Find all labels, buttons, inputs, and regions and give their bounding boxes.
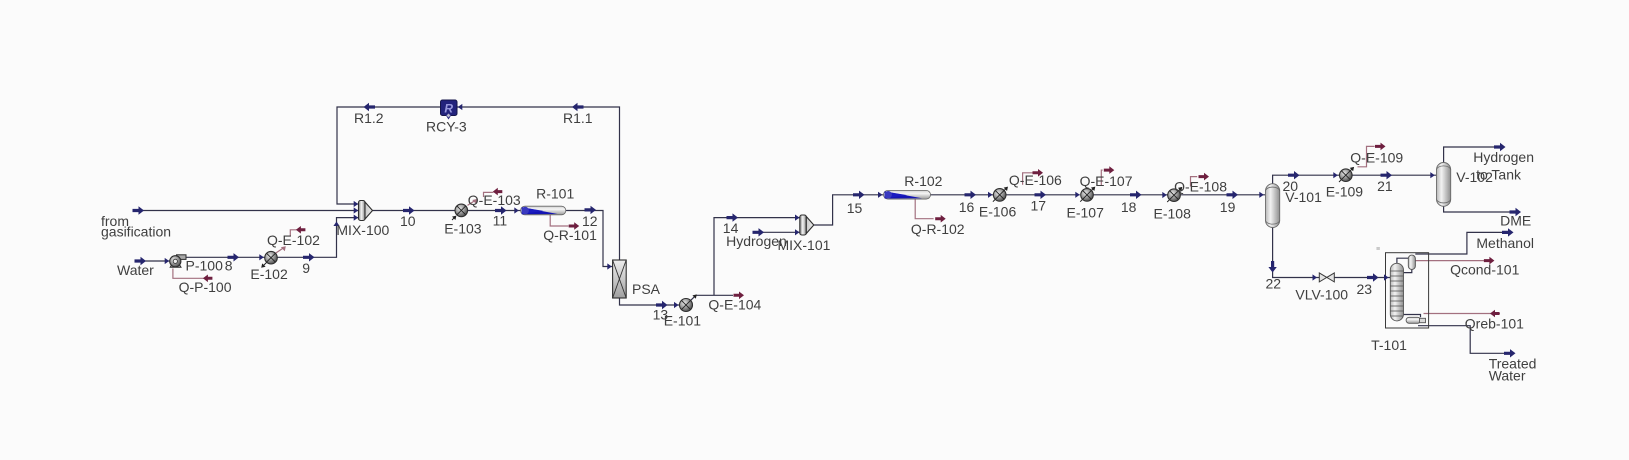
svg-text:Q-E-103: Q-E-103 (468, 192, 521, 208)
svg-text:Q-P-100: Q-P-100 (179, 279, 232, 295)
svg-text:E-108: E-108 (1154, 206, 1192, 222)
svg-text:Methanol: Methanol (1476, 235, 1534, 251)
svg-text:E-101: E-101 (664, 312, 702, 328)
svg-text:Qcond-101: Qcond-101 (1450, 261, 1519, 277)
svg-text:Q-E-102: Q-E-102 (267, 232, 320, 248)
svg-text:DME: DME (1500, 213, 1531, 229)
svg-text:gasification: gasification (101, 224, 171, 240)
svg-text:to Tank: to Tank (1476, 167, 1522, 183)
svg-text:15: 15 (847, 200, 863, 216)
svg-text:9: 9 (302, 260, 310, 276)
svg-text:Q-E-108: Q-E-108 (1174, 178, 1227, 194)
svg-text:Q-E-106: Q-E-106 (1009, 172, 1062, 188)
svg-text:Water: Water (1489, 367, 1526, 383)
svg-text:R-101: R-101 (536, 185, 574, 201)
svg-text:MIX-100: MIX-100 (336, 222, 389, 238)
svg-text:Q-R-102: Q-R-102 (911, 221, 965, 237)
svg-text:E-109: E-109 (1326, 184, 1364, 200)
svg-text:P-100: P-100 (186, 257, 224, 273)
svg-text:PSA: PSA (632, 281, 661, 297)
svg-text:Q-E-109: Q-E-109 (1350, 150, 1403, 166)
svg-text:T-101: T-101 (1371, 337, 1407, 353)
svg-text:21: 21 (1377, 178, 1393, 194)
svg-text:E-107: E-107 (1067, 204, 1105, 220)
svg-text:≡: ≡ (1376, 246, 1380, 253)
svg-text:22: 22 (1266, 276, 1282, 292)
svg-text:Q-E-107: Q-E-107 (1080, 173, 1133, 189)
svg-text:8: 8 (225, 258, 233, 274)
svg-text:MIX-101: MIX-101 (778, 237, 831, 253)
svg-text:E-103: E-103 (444, 220, 482, 236)
svg-text:R: R (444, 102, 453, 116)
svg-text:R1.2: R1.2 (354, 110, 384, 126)
svg-text:VLV-100: VLV-100 (1295, 287, 1348, 303)
svg-text:R-102: R-102 (904, 173, 942, 189)
svg-text:16: 16 (959, 199, 975, 215)
svg-text:17: 17 (1031, 198, 1047, 214)
svg-text:11: 11 (493, 213, 508, 229)
svg-text:V-101: V-101 (1285, 189, 1322, 205)
svg-text:19: 19 (1220, 199, 1236, 215)
svg-text:Hydrogen: Hydrogen (1473, 149, 1534, 165)
svg-text:E-102: E-102 (250, 266, 288, 282)
svg-text:Q-E-104: Q-E-104 (708, 296, 761, 312)
svg-text:Q-R-101: Q-R-101 (543, 227, 597, 243)
svg-text:10: 10 (400, 213, 416, 229)
svg-text:18: 18 (1121, 199, 1137, 215)
svg-text:23: 23 (1357, 281, 1373, 297)
svg-text:E-106: E-106 (979, 204, 1017, 220)
svg-text:RCY-3: RCY-3 (426, 119, 467, 135)
svg-text:R1.1: R1.1 (563, 110, 593, 126)
svg-text:Water: Water (117, 262, 154, 278)
svg-text:Qreb-101: Qreb-101 (1465, 315, 1524, 331)
